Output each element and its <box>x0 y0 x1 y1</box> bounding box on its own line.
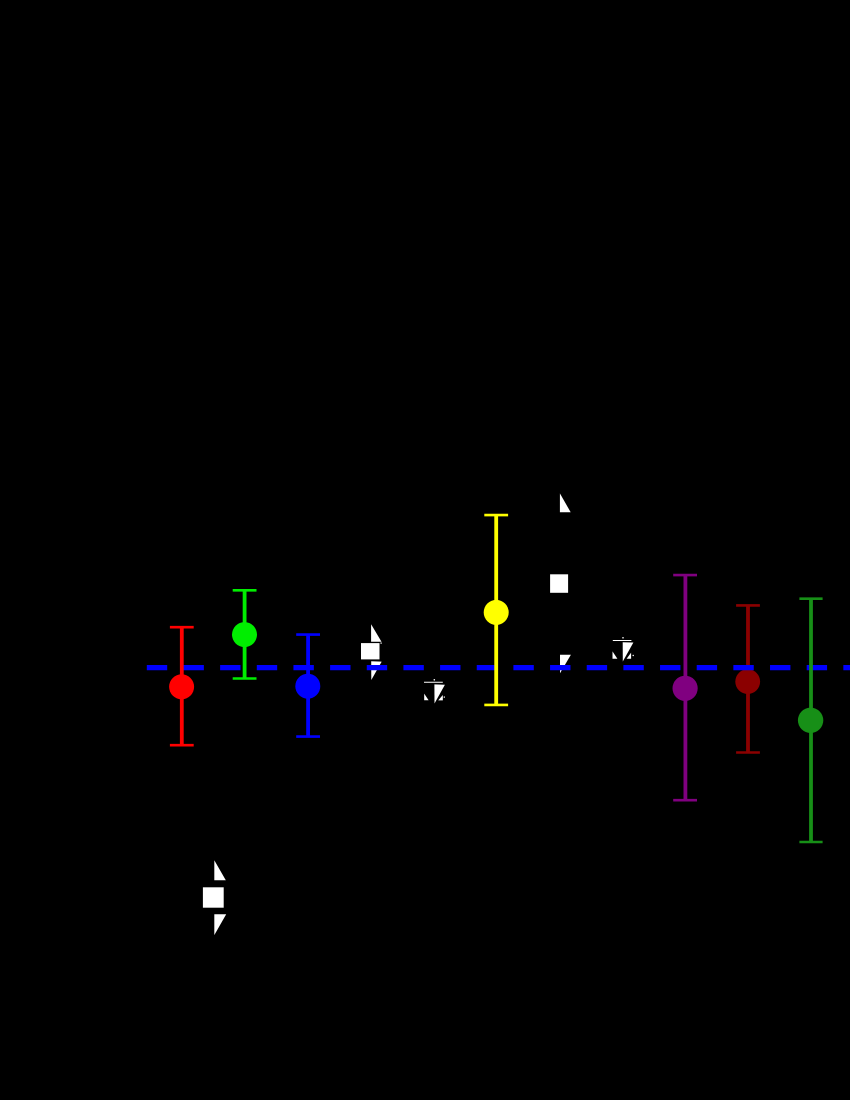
white glyph E: half-triangle-up cap <box>214 860 226 880</box>
blue marker circle <box>295 674 320 699</box>
yellow marker circle <box>484 600 509 625</box>
green marker circle <box>232 622 257 647</box>
green error bar <box>233 590 257 678</box>
blue error bar <box>296 635 320 737</box>
white glyph A: half-triangle-down cap <box>371 661 382 680</box>
yellow error bar <box>484 515 508 705</box>
red marker circle <box>169 674 194 699</box>
white glyph E: square marker <box>203 887 224 907</box>
dark red error bar (under dashed line) <box>736 605 760 752</box>
white glyph D: thin horizontal top edge <box>613 640 632 642</box>
white glyph A: half-triangle-up cap <box>371 624 382 644</box>
purple error bar <box>673 575 697 800</box>
dark green error bar <box>799 599 822 842</box>
white glyph D: left corner fragment <box>613 651 618 658</box>
white glyph C: square marker <box>550 574 568 593</box>
white glyph D: right corner fragment <box>627 653 634 659</box>
white glyph B: right corner fragment <box>438 695 445 700</box>
white glyph B: left corner fragment <box>424 694 428 701</box>
blue dashed reference line <box>147 665 850 670</box>
white glyph E: half-triangle-down cap <box>214 914 226 935</box>
white glyph B: main half-triangle-down <box>434 684 445 703</box>
dark green marker circle <box>798 708 823 733</box>
white glyph A: square marker <box>361 643 380 659</box>
dark red marker circle <box>735 669 760 694</box>
white glyph C: half-triangle-up cap <box>560 493 571 512</box>
white glyph B: apex dot <box>434 679 436 681</box>
white glyph D: apex dot <box>622 637 624 639</box>
white glyph B: thin horizontal top edge <box>424 681 443 683</box>
white glyph C: half-triangle-down cap <box>560 655 571 674</box>
red error bar <box>170 627 194 745</box>
white glyph D: main half-triangle-down <box>623 642 634 661</box>
purple marker circle <box>673 676 698 701</box>
